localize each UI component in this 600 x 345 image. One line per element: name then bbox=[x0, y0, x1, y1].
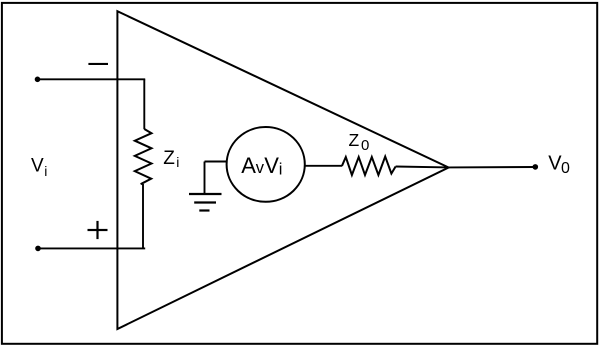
wire Z0 to apex bbox=[396, 166, 449, 169]
label plus polarity bbox=[88, 221, 108, 239]
op-amp U1 body bbox=[117, 11, 448, 329]
wire source to Z0 bbox=[305, 165, 343, 167]
terminal dot (output) bbox=[533, 164, 539, 170]
wire top input bbox=[38, 78, 146, 80]
wire bottom input bbox=[38, 247, 145, 249]
terminal dot (bottom input) bbox=[35, 246, 41, 252]
wire Zi bottom lead bbox=[142, 184, 144, 248]
label minus polarity bbox=[88, 63, 108, 65]
wire output bbox=[449, 166, 536, 168]
ground bbox=[189, 194, 222, 211]
resistor Zi bbox=[135, 129, 152, 184]
terminal dot (top input) bbox=[35, 77, 41, 83]
wire source to ground bbox=[205, 161, 228, 163]
wire ground stem bbox=[204, 162, 206, 195]
wire Zi top lead bbox=[143, 79, 145, 129]
resistor Z0 bbox=[342, 157, 396, 176]
controlled source U2 AvVi bbox=[227, 127, 305, 202]
